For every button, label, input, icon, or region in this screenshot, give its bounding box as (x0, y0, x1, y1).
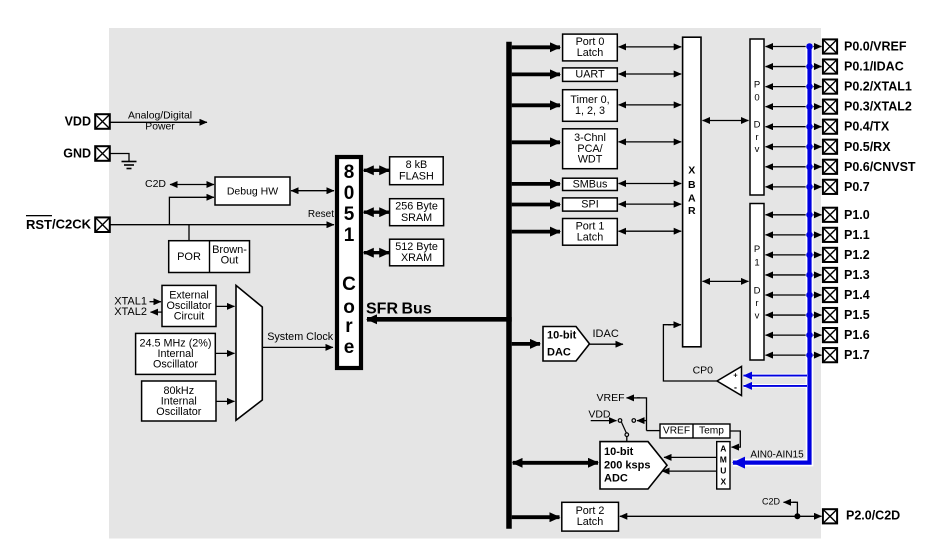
svg-text:IDAC: IDAC (593, 328, 619, 340)
block UART (563, 68, 618, 82)
svg-text:P0.2/XTAL1: P0.2/XTAL1 (844, 80, 912, 94)
junction blue dot P1.3 (806, 272, 813, 279)
svg-text:P0.0/VREF: P0.0/VREF (844, 40, 907, 54)
block 80kHz Internal Oscillator (142, 381, 216, 421)
junction blue dot P0.1/IDAC (806, 63, 813, 70)
block 3-Chnl PCA/WDT (563, 129, 618, 169)
svg-text:v: v (755, 311, 760, 322)
svg-text:U: U (720, 465, 726, 475)
junction blue dot P0.7 (806, 184, 813, 191)
block 8051 Core (337, 157, 361, 368)
junction blue dot P1.7 (806, 352, 813, 359)
svg-text:0: 0 (754, 93, 759, 104)
svg-text:System Clock: System Clock (267, 331, 334, 343)
switch pole contact (625, 433, 629, 437)
ground symbol (122, 162, 137, 169)
wire SFR Bus horizontal (367, 317, 512, 322)
svg-text:Latch: Latch (577, 47, 603, 59)
wire core-FLASH bidirectional (364, 169, 389, 172)
block VREF / Temp (660, 424, 730, 438)
svg-text:POR: POR (177, 251, 201, 263)
svg-text:P1.6: P1.6 (844, 328, 870, 342)
pin P1.1 crossed-box (823, 228, 837, 242)
svg-text:R: R (688, 205, 696, 217)
wire bus to ADC bidirectional (513, 461, 598, 465)
svg-text:P1.0: P1.0 (844, 208, 870, 222)
svg-text:P1.4: P1.4 (844, 288, 870, 302)
svg-text:P1.7: P1.7 (844, 348, 870, 362)
block Timer 0123 (563, 90, 618, 122)
svg-text:C2D: C2D (145, 178, 166, 190)
pin P0.4/TX crossed-box (823, 120, 837, 134)
junction blue dot P1.2 (806, 252, 813, 259)
wire IDAC output (590, 343, 624, 345)
svg-text:r: r (755, 298, 758, 309)
svg-text:GND: GND (63, 147, 91, 161)
wire bus to Port 2 Latch (512, 515, 560, 519)
wire P1 Drv to pin P1.1 (766, 234, 822, 236)
junction blue dot P1.4 (806, 292, 813, 299)
svg-text:10-bit: 10-bit (547, 329, 577, 341)
wire Port 0 Latch to XBAR bidirectional (619, 46, 682, 48)
svg-text:P0.1/IDAC: P0.1/IDAC (844, 60, 904, 74)
svg-text:Debug HW: Debug HW (227, 186, 278, 198)
svg-text:D: D (754, 286, 761, 297)
wire P1 Drv to pin P1.4 (766, 294, 822, 296)
wire P0 Drv to pin P0.6/CNVST (766, 166, 822, 168)
pin P0.3/XTAL2 crossed-box (823, 100, 837, 114)
wire bus to Timer 0123 (512, 103, 560, 107)
svg-text:C: C (342, 274, 356, 295)
junction blue dot P0.4/TX (806, 123, 813, 130)
wire P0 Drv to pin P0.1/IDAC (766, 66, 822, 68)
clock mux trapezoid (236, 285, 262, 420)
svg-text:r: r (345, 316, 353, 337)
svg-text:M: M (720, 454, 727, 464)
svg-text:P0.6/CNVST: P0.6/CNVST (844, 160, 916, 174)
svg-text:P1.2: P1.2 (844, 248, 870, 262)
svg-text:A: A (688, 192, 696, 204)
svg-text:Latch: Latch (577, 231, 603, 243)
junction blue dot P1.6 (806, 332, 813, 339)
svg-text:8: 8 (344, 162, 355, 183)
svg-text:WDT: WDT (578, 154, 603, 166)
svg-text:AIN0-AIN15: AIN0-AIN15 (750, 450, 804, 461)
wire GND to ground (110, 154, 129, 162)
pin GND crossed-box (95, 146, 110, 161)
wire bus to Port 0 Latch (512, 45, 560, 49)
blue port I/O bus vertical (with white casing) (733, 45, 810, 463)
pin P0.7 crossed-box (823, 180, 837, 194)
svg-text:Oscillator: Oscillator (153, 359, 198, 371)
svg-text:P: P (754, 80, 760, 91)
pin P0.5/RX crossed-box (823, 140, 837, 154)
block 512 Byte XRAM (390, 239, 444, 266)
wire P0 Drv to pin P0.3/XTAL2 (766, 106, 822, 108)
wire ext osc to clock mux (216, 305, 235, 307)
block SPI (563, 198, 618, 211)
pin RST/C2CK label with overline (26, 217, 92, 232)
wire VREF out (arrow left) (637, 398, 647, 431)
junction blue dot P0.0/VREF (806, 43, 813, 50)
block Port 2 Latch (562, 502, 619, 531)
wire C2D branch (793, 502, 797, 516)
block 8 kB FLASH (390, 157, 444, 185)
svg-text:0: 0 (344, 183, 355, 204)
junction blue dot P1.0 (806, 212, 813, 219)
wire bus to Port 1 Latch (512, 230, 560, 234)
svg-text:XRAM: XRAM (401, 252, 432, 264)
wire P1 Drv to pin P1.6 (766, 334, 822, 336)
pin P1.2 crossed-box (823, 248, 837, 262)
block 10-bit DAC (543, 327, 590, 362)
block P1 Drv (750, 204, 764, 361)
switch contact VREF side (632, 419, 636, 423)
wire main internal bus vertical (506, 42, 512, 529)
wire bus to SPI (512, 203, 560, 207)
comparator CP0 (717, 367, 742, 396)
svg-text:200 ksps: 200 ksps (604, 459, 650, 471)
svg-text:8 kB: 8 kB (406, 159, 428, 171)
wire bus to DAC (512, 342, 540, 346)
svg-text:1: 1 (754, 258, 759, 269)
junction blue dot P1.1 (806, 232, 813, 239)
wire bus to UART (512, 73, 560, 77)
pin P1.0 crossed-box (823, 208, 837, 222)
wire down to POR (188, 225, 190, 240)
svg-text:v: v (755, 144, 760, 155)
svg-text:e: e (344, 337, 355, 358)
svg-text:SMBus: SMBus (573, 178, 608, 190)
block P0 Drv (750, 39, 764, 195)
wire blue CP0 - input (744, 384, 808, 388)
label Analog/Digital Power (128, 111, 192, 133)
svg-text:P0.7: P0.7 (844, 180, 870, 194)
wire XBAR to P1 Drv bidirectional (703, 280, 749, 282)
svg-text:Temp: Temp (699, 426, 724, 437)
svg-text:A: A (720, 443, 726, 453)
svg-text:X: X (688, 165, 695, 177)
block 24.5 MHz Internal Oscillator (136, 333, 216, 374)
wire AMUX to ADC channel 2 (662, 470, 717, 472)
pin P0.1/IDAC crossed-box (823, 59, 837, 73)
svg-text:Analog/Digital: Analog/Digital (128, 111, 192, 122)
wire 3-Chnl PCA/WDT to XBAR bidirectional (619, 141, 682, 143)
wire CP0 output to XBAR (663, 325, 717, 381)
svg-text:SRAM: SRAM (401, 212, 432, 224)
svg-text:CP0: CP0 (693, 365, 714, 377)
pin P0.0/VREF crossed-box (823, 39, 837, 53)
wire VREF branch to switch (arrow left) (637, 420, 647, 422)
block XBAR (683, 37, 701, 347)
svg-text:1, 2, 3: 1, 2, 3 (575, 105, 605, 117)
svg-text:Oscillator: Oscillator (156, 406, 201, 418)
block Debug HW (215, 177, 290, 205)
svg-text:Out: Out (221, 254, 239, 266)
svg-text:P0.4/TX: P0.4/TX (844, 120, 890, 134)
svg-text:-: - (734, 383, 737, 393)
pin VDD crossed-box (95, 114, 110, 129)
svg-text:r: r (755, 132, 758, 143)
wire P1 Drv to pin P1.0 (766, 214, 822, 216)
svg-text:C2D: C2D (762, 496, 781, 506)
svg-text:512 Byte: 512 Byte (395, 241, 438, 253)
junction blue dot P0.5/RX (806, 143, 813, 150)
wire P0 Drv to pin P0.0/VREF (766, 46, 822, 48)
wire Port 2 Latch to P2.0 pin bidirectional (620, 515, 822, 517)
wire 80kHz osc to clock mux (216, 400, 235, 402)
svg-text:P1.1: P1.1 (844, 228, 870, 242)
svg-text:DAC: DAC (547, 346, 571, 358)
wire P0 Drv to pin P0.2/XTAL1 (766, 86, 822, 88)
wire P1 Drv to pin P1.7 (766, 354, 822, 356)
pin RST crossed-box (95, 217, 110, 232)
svg-text:1: 1 (344, 225, 355, 246)
wire core-XRAM bidirectional (364, 251, 389, 254)
wire Debug HW to 8051 core (bidirectional) (291, 190, 334, 192)
pin P0.6/CNVST crossed-box (823, 160, 837, 174)
wire P1 Drv to pin P1.2 (766, 254, 822, 256)
block Port 0 Latch (563, 34, 618, 61)
junction blue dot P0.3/XTAL2 (806, 103, 813, 110)
pin P1.3 crossed-box (823, 268, 837, 282)
block Port 1 Latch (563, 219, 618, 246)
pin P1.6 crossed-box (823, 328, 837, 342)
svg-text:D: D (754, 120, 761, 131)
wire SMBus to XBAR bidirectional (619, 183, 682, 185)
wire bus to SMBus (512, 182, 560, 186)
wire System Clock to core (262, 346, 333, 348)
wire SPI to XBAR bidirectional (619, 203, 682, 205)
block External Oscillator Circuit (162, 285, 216, 326)
junction blue dot P1.5 (806, 312, 813, 319)
wire C2D to Debug HW (bidirectional) (170, 184, 214, 186)
svg-text:X: X (720, 476, 726, 486)
wire AMUX to ADC channel 1 (664, 456, 717, 458)
switch contact VDD side (618, 419, 622, 423)
svg-text:B: B (688, 179, 696, 191)
wire P0 Drv to pin P0.5/RX (766, 146, 822, 148)
wire P1 Drv to pin P1.5 (766, 314, 822, 316)
wire blue CP0 + input (744, 374, 808, 378)
svg-text:Power: Power (145, 122, 175, 133)
wire XTAL1 in (150, 301, 162, 303)
svg-text:P1.5: P1.5 (844, 308, 870, 322)
pin P2.0/C2D crossed-box (823, 509, 837, 523)
svg-text:ADC: ADC (604, 472, 628, 484)
svg-text:SPI: SPI (581, 199, 598, 211)
wire Analog/Digital Power arrow (110, 121, 207, 123)
wire UART to XBAR bidirectional (619, 73, 682, 75)
svg-text:FLASH: FLASH (399, 170, 434, 182)
wire switch pole to ADC (626, 437, 628, 442)
svg-text:P0.5/RX: P0.5/RX (844, 140, 891, 154)
wire Port 1 Latch to XBAR bidirectional (619, 230, 682, 232)
switch blade (622, 422, 627, 433)
pin P1.4 crossed-box (823, 288, 837, 302)
svg-text:XTAL2: XTAL2 (114, 306, 147, 318)
svg-text:Circuit: Circuit (174, 311, 205, 323)
svg-text:VDD: VDD (588, 409, 611, 421)
wire bus to 3-Chnl PCA/WDT (512, 140, 560, 144)
svg-text:5: 5 (344, 204, 355, 225)
wire P0 Drv to pin P0.4/TX (766, 126, 822, 128)
block 256 Byte SRAM (390, 199, 444, 226)
block POR / Brown-Out (169, 241, 250, 273)
pin P1.7 crossed-box (823, 348, 837, 362)
wire VREF corner to VREF/Temp box (647, 430, 661, 432)
wire P0 Drv to pin P0.7 (766, 186, 822, 188)
wire XTAL2 out (151, 311, 163, 313)
svg-text:+: + (733, 371, 738, 380)
svg-text:VREF: VREF (596, 392, 624, 404)
block 10-bit 200ksps ADC (600, 442, 667, 489)
junction dot C2D (794, 513, 800, 519)
block AMUX (717, 442, 730, 489)
svg-text:UART: UART (575, 69, 605, 81)
svg-text:256 Byte: 256 Byte (395, 201, 438, 213)
svg-text:Latch: Latch (577, 516, 603, 528)
junction blue dot P0.2/XTAL1 (806, 83, 813, 90)
wire XBAR to P0 Drv bidirectional (703, 120, 749, 122)
wire Timer 0123 to XBAR bidirectional (619, 104, 682, 106)
wire core-SRAM bidirectional (364, 210, 389, 213)
svg-text:P0.3/XTAL2: P0.3/XTAL2 (844, 100, 912, 114)
wire VREF/Temp to AMUX (730, 431, 740, 447)
svg-text:VREF: VREF (663, 426, 690, 437)
junction blue dot P0.6/CNVST (806, 164, 813, 171)
svg-text:RST/C2CK: RST/C2CK (26, 217, 92, 232)
pin P1.5 crossed-box (823, 308, 837, 322)
wire RST line to core (110, 224, 334, 226)
svg-text:Reset: Reset (308, 209, 334, 220)
pin P0.2/XTAL1 crossed-box (823, 80, 837, 94)
wire VDD to switch (591, 420, 617, 422)
svg-text:P2.0/C2D: P2.0/C2D (846, 509, 900, 523)
svg-text:VDD: VDD (65, 115, 91, 129)
svg-text:P: P (754, 244, 760, 255)
wire P1 Drv to pin P1.3 (766, 274, 822, 276)
diagram background panel (109, 28, 821, 539)
wire reset net into Debug HW (169, 197, 213, 224)
svg-text:10-bit: 10-bit (604, 446, 634, 458)
svg-text:P1.3: P1.3 (844, 268, 870, 282)
block SMBus (563, 178, 618, 190)
wire 24.5MHz osc to clock mux (215, 352, 234, 354)
